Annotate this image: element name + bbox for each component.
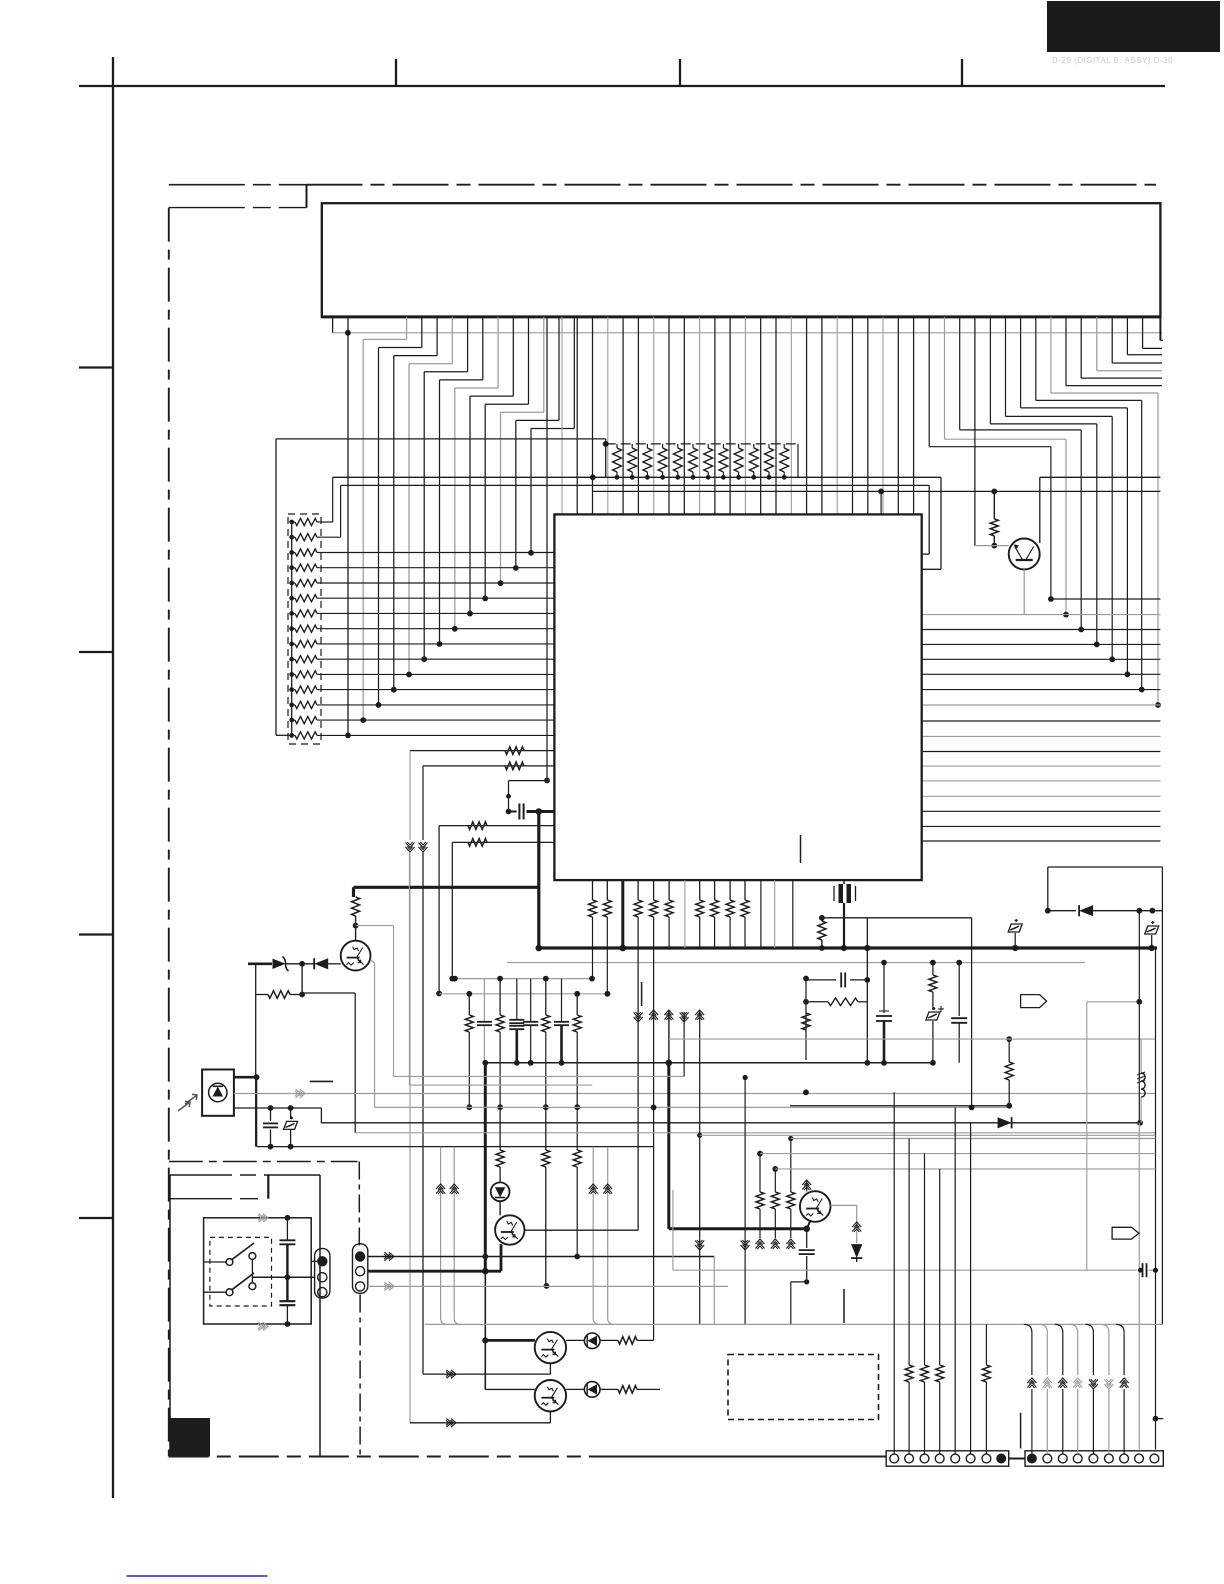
vertical x255 drop [255,964,257,1147]
light arrows into PD1 [178,1101,190,1111]
pin mark x1021 [1020,1413,1022,1449]
trimmer TR right1 [1008,919,1022,932]
chevron stubs near rail [634,1017,643,1022]
row y978 [455,978,593,980]
row y994 [439,993,607,995]
bold drop x485 to Q1 zone [484,1063,487,1271]
row y1270 with cap right [672,1190,674,1270]
border tick left 1 [79,366,113,368]
border tick top 1 [395,59,397,86]
isolated label dash [310,1080,333,1082]
CN_B bottom stubs [359,1295,361,1457]
bold branch y887 to Q2 [354,886,539,889]
switch outer box [204,1218,312,1324]
Q6 emitter row y1423 [549,1411,551,1422]
net line y485 [341,484,930,486]
wire x410 down with chevron [409,751,411,840]
pin to Q5 base line [974,317,976,546]
page border left [112,57,114,1498]
coil L1 [1140,1039,1142,1073]
connector CN_B 3pin [353,1244,368,1294]
ecap x884 [883,963,885,1013]
Q2 gray tap to x393 drop [356,925,394,927]
LED D2 [566,1339,584,1341]
transistor Q4 [800,1191,831,1222]
switch dashed box SW1 [210,1237,272,1306]
RA1 feed vertical x276 [275,439,277,735]
wire x423 down with chevron [422,766,424,840]
LED D1 [491,1182,510,1201]
PD1 output bold [234,1076,257,1079]
border tick top 3 [961,59,963,86]
rail y1063 [485,1062,933,1064]
LED D3 [566,1388,584,1390]
resistor left of crystal [821,918,823,921]
resistor array RA2 (12) with dashed rail [606,443,798,445]
border tick left 3 [79,933,113,935]
resistor R near Q5 [993,491,995,519]
trimmer TR right2 [1145,921,1159,934]
svg-text:D-29 (DIGITAL B. ASSY) D-30: D-29 (DIGITAL B. ASSY) D-30 [1052,56,1173,65]
capacitor C into IC pin y811 [506,809,512,815]
border tick top 2 [679,59,681,86]
chevron wire stubs x440 x454 up [440,1147,442,1318]
connector CN3 9pin [1025,1451,1163,1466]
net line y491 [593,490,1161,492]
dash-dot section line y1162 [169,1161,358,1163]
wire x439 down to row994 [438,826,440,994]
bus band J1 [322,203,1161,317]
PD1 lower net y1108 to y1123 rail [234,1107,322,1109]
page border top [79,85,1165,87]
band right edge stub [1159,317,1161,341]
res y1002 [828,998,858,1006]
Q2 base diodes [248,962,272,965]
rows into IC left edge y750/y766 with resistors [410,750,554,752]
res x1009 [1008,1039,1010,1062]
Q1 emitter bold [500,1244,503,1271]
rows into IC left edge y825/y842 with resistors [439,825,554,827]
pin mark stub x844 [843,1289,845,1323]
black corner square [170,1418,210,1457]
cap y980 [806,979,836,981]
CN2-CN3 link [1009,1458,1025,1460]
left bus staircase [347,317,349,735]
chevron stub wires x745 [695,1245,704,1250]
CN2 wires up [893,1092,895,1454]
IC internal pin mark [800,835,802,863]
resistor x545 lower [545,1107,547,1150]
Q5 emitter wire [1023,570,1025,615]
rows from IC right edge [1051,598,1161,600]
CN_B wires right [368,1256,715,1258]
switch center line to connector [252,1276,314,1278]
row y963 gray [507,962,1085,964]
CN3 wires with chevrons [1024,1324,1032,1332]
switch poles [226,1259,233,1266]
sheet boundary dash-dot top [307,184,1157,186]
diode net y911 [1048,910,1076,912]
rail y1147 [257,1146,654,1148]
bus pins into IC top [561,317,563,515]
Q4 right branch diode [831,1204,857,1206]
line y918 [822,917,972,919]
net flag right-center [1021,995,1047,1008]
IC U1 (main LSI) [554,514,921,880]
PD1 gray line y1093 [234,1093,1156,1095]
right bus pins and staircase [1142,317,1144,349]
resistor above Q2 [352,897,360,916]
sheet tab top-left [169,184,307,186]
sheet boundary dash-dot bottom [169,1456,886,1458]
bold drop x668 to Q4 zone [666,1060,673,1067]
net line y477 right segment / Q5 collector [1040,476,1161,478]
transistor Q1 [499,1201,501,1215]
zener leg x302 to resistor row [301,964,303,995]
gray rows 1076/1085 [394,1075,685,1077]
row y1107 [375,1106,1010,1108]
connector CN_A 3pin [315,1249,330,1299]
gray rows right x760-791 [700,1134,1156,1136]
transistor Q6 row [485,1388,535,1390]
pins below IC with resistors [592,880,594,900]
line y780 and x508 drop [509,780,548,782]
pin left of IC [546,317,548,781]
footer blue rule [127,1575,268,1577]
res vert x806 [802,1013,810,1030]
transistor Q2 [341,941,371,971]
resistor x577 lower [573,1150,581,1167]
plain pins below IC [684,880,686,948]
three resistors above Q4 [756,1192,764,1209]
gray long row y1324 [425,1323,1163,1325]
resistor after D2 [600,1339,618,1341]
Q1 base riser x637 [525,1229,639,1231]
pin stub 1 [332,317,334,333]
bold rail y948 [539,946,1157,949]
transistor Q3 row [485,1339,535,1342]
IC pin mark stub x641 [641,982,643,1006]
vertical x1139 [1138,911,1140,1123]
border tick left 4 [79,1217,113,1219]
cap pair on x287 [279,1239,295,1241]
vertical x867 [866,918,868,1063]
net flag left bottom-right [1112,1227,1139,1239]
connector CN2 8pin [886,1451,1009,1466]
dashed option box [728,1355,879,1420]
Q5 collector wire [1039,477,1041,543]
net right x806 vertical [805,979,807,1061]
lower resistors x500/545/577... to LED [499,1107,501,1150]
trimmer y1125 [290,1108,292,1119]
bold to Q4 y1229 [669,1227,807,1230]
crystal X1 [843,880,845,884]
dark L x355 drop [301,964,303,993]
res x933 + trimmer [932,963,934,975]
loop x1048 up [1047,867,1049,911]
gray corner x1087 [1087,1001,1140,1003]
resistor R y994 left [256,994,268,996]
resistor after D3 [600,1388,618,1390]
net line y439 [276,438,606,440]
resistor array RA1 dashed box [288,514,321,744]
net line y477 [333,476,941,478]
dash-dot vertical x359 [358,1162,360,1249]
row y1133 gray [355,1132,1155,1134]
Q2 emitter gray drop x374 [371,960,375,963]
section box bottom-left [170,1174,320,1176]
gray rail under band [333,332,1162,334]
row y1106 [790,1105,1009,1107]
photodiode module PD1 [202,1070,234,1116]
resistor array RA1 rows [289,520,294,525]
RC bank verticals [468,994,470,1015]
RA1 left rail [291,522,293,735]
cap x959 [958,963,960,1016]
bold net vertical x539 [537,812,540,949]
bottom dash-dot continuation [600,1456,886,1458]
row y1039 gray [669,1038,1156,1040]
vertical x256 drop [256,1077,258,1146]
junction dot pin2 rail [345,330,351,336]
wire x452 down to row978 [451,842,453,978]
rail y1123 with diode [321,1122,1000,1124]
Q4 emitter cap chain [807,1221,811,1229]
border tick left 2 [79,651,113,653]
transistor Q5 [975,545,1009,547]
capacitor C y1125 [270,1108,272,1121]
bold pin x623 to rail [621,880,624,948]
sheet boundary dash-dot left [168,208,170,1457]
vertical x1155 right [1155,948,1157,1419]
Q3 emitter row y1374 [549,1363,551,1374]
title block (filled) [1047,1,1220,52]
